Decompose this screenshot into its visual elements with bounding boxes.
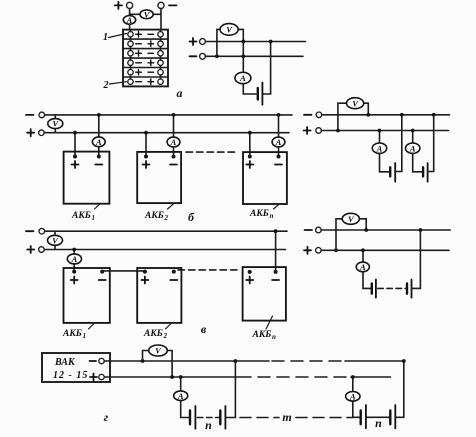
battery box AKB1 (b) xyxy=(64,152,110,204)
junction dot V-right on minus bus (v-right) xyxy=(364,228,368,232)
ammeter An (b) xyxy=(272,137,285,147)
wire voltmeter leads (b) xyxy=(54,115,56,133)
node - label (a-right) xyxy=(190,55,197,57)
junction dot branch1 return (g) xyxy=(234,359,238,363)
terminal - (a) xyxy=(158,2,164,8)
wire plus bus solid right (g) xyxy=(351,376,391,378)
cell 4 electrodes (a) xyxy=(128,60,133,65)
cell 3 polarity + - (a) xyxy=(136,51,154,57)
wire minus bus (b-right) xyxy=(322,114,450,116)
wire voltmeter right lead (b-right) xyxy=(363,103,369,115)
svg-text:2: 2 xyxy=(164,214,169,222)
wire plus bus (v) xyxy=(44,249,285,251)
svg-text:A: A xyxy=(275,137,282,147)
junction dot battery-n on minus bus (b) xyxy=(277,113,281,117)
ammeter A branch2 (g) xyxy=(346,392,360,402)
wire voltmeter right lead / ammeter branch (a-right) xyxy=(238,29,244,72)
cell2 short electrode (b-right) xyxy=(422,167,424,176)
svg-text:АКБ: АКБ xyxy=(71,211,91,221)
branch1 cellB short electrode (g) xyxy=(219,411,221,425)
wire battery1 left lead (b) xyxy=(74,133,76,157)
wire plus bus (b) xyxy=(44,132,289,134)
svg-text:а: а xyxy=(177,86,183,100)
wire cell to top bus (a-right) xyxy=(262,42,270,95)
wire branch2 down lead (b-right) xyxy=(412,131,414,144)
wire voltmeter leads (v) xyxy=(54,231,56,249)
wire ammeter to cell (a-right) xyxy=(243,84,256,94)
cellA short electrode (v-right) xyxy=(371,284,373,294)
ammeter A2 (b) xyxy=(167,137,180,147)
ammeter A (v-right) xyxy=(356,262,369,272)
terminal + (v) xyxy=(39,247,45,253)
svg-text:2: 2 xyxy=(163,332,168,340)
svg-text:A: A xyxy=(177,391,184,401)
ammeter A (a-right) xyxy=(235,72,251,83)
svg-text:АКБ: АКБ xyxy=(252,330,272,340)
junction dot branch on plus bus (v-right) xyxy=(361,248,365,252)
wire voltmeter right lead (g) xyxy=(167,351,173,378)
wire plus bus dashed middle (g) xyxy=(258,376,348,378)
terminal - (v-right) xyxy=(316,227,322,233)
dashed series continuation AKB2 to AKBn (v) xyxy=(178,269,241,271)
wire voltmeter left lead (a-right) xyxy=(217,29,221,56)
wire minus bus solid left (g) xyxy=(104,360,269,362)
branch2 cellB short electrode (g) xyxy=(389,411,391,425)
wire top bus (a-right) xyxy=(206,41,306,43)
cell 1 polarity + - (a) xyxy=(136,32,154,38)
cellB long electrode (v-right) xyxy=(411,280,413,298)
cell 5 polarity + - (a) xyxy=(136,69,154,75)
svg-text:A: A xyxy=(170,137,177,147)
ammeter A1 (b) xyxy=(92,137,105,147)
wire right vertical (a) xyxy=(160,9,162,30)
battery2 terminal posts (b) xyxy=(144,155,148,159)
battery box AKBn (b) xyxy=(243,152,287,204)
rectifier box VAK 12-15 xyxy=(42,353,110,382)
junction dot V-left on plus bus (b-right) xyxy=(336,129,340,133)
wire ammeter2 to cell2 (b-right) xyxy=(413,153,422,171)
svg-text:n: n xyxy=(272,333,276,341)
junction dot branch1 on plus bus (g) xyxy=(179,375,183,379)
rectifier - sign xyxy=(90,360,97,362)
pointer line AKB2 (b) xyxy=(168,204,174,209)
wire minus bus solid right (g) xyxy=(345,360,404,362)
junction dot cell1 return (b-right) xyxy=(400,113,404,117)
svg-text:n: n xyxy=(270,212,274,220)
wire cellB to minus bus branch2 (g) xyxy=(395,361,404,417)
wire plus bus (b-right) xyxy=(321,130,448,132)
junction dot on bottom bus (a-right) xyxy=(241,54,245,58)
node - label (v) xyxy=(26,230,34,232)
battery-n polarity signs (b) xyxy=(246,161,282,168)
cell2 long electrode (b-right) xyxy=(427,163,429,182)
svg-text:АКБ: АКБ xyxy=(249,209,269,219)
voltmeter V (a-right) xyxy=(220,24,238,36)
svg-text:A: A xyxy=(95,137,102,147)
branch1 cellB long electrode (g) xyxy=(224,406,226,429)
svg-text:г: г xyxy=(104,410,109,424)
svg-text:A: A xyxy=(126,15,133,25)
battery box AKB2 (v) xyxy=(137,268,181,323)
junction dot V-right on minus bus (b-right) xyxy=(366,113,370,117)
svg-text:n: n xyxy=(205,418,212,432)
cell 6 electrodes (a) xyxy=(128,79,133,84)
node minus label (a) xyxy=(169,4,177,6)
svg-text:A: A xyxy=(239,73,246,83)
wire cell1 to minus bus (b-right) xyxy=(395,115,402,172)
wire cellB to minus bus branch1 (g) xyxy=(225,361,235,418)
ammeter A (v) xyxy=(67,254,81,264)
junction dot battery-n on plus bus (b) xyxy=(248,131,252,135)
node plus terminal (a) xyxy=(115,2,122,9)
wire ammeter1 to cell1 (b-right) xyxy=(380,153,390,171)
wire ammeter branch lead (v) xyxy=(73,250,75,272)
wire ammeter1 to cellA (g) xyxy=(181,401,189,418)
voltmeter V (v-right) xyxy=(342,213,359,224)
node + label (a-right) xyxy=(190,38,197,45)
junction dot return on minus bus (v-right) xyxy=(419,228,423,232)
cell 1 electrodes (a) xyxy=(128,32,133,37)
wire AKBn to minus bus (v) xyxy=(275,231,277,272)
terminal + (v-right) xyxy=(316,248,322,254)
wire minus bus (v-right) xyxy=(321,229,450,231)
ammeter A (a) xyxy=(123,16,135,25)
terminal - (a-right) xyxy=(200,53,206,59)
pointer line AKB2 (v) xyxy=(166,323,173,330)
wire branch1 down lead (g) xyxy=(180,377,182,391)
junction dot battery1 on minus bus (b) xyxy=(97,113,101,117)
wire ammeter2 to cellA (g) xyxy=(353,401,360,417)
svg-text:A: A xyxy=(359,262,366,272)
wire minus bus (v) xyxy=(45,230,287,232)
wire battery-n left lead (b) xyxy=(249,133,251,157)
junction dot battery2 on minus bus (b) xyxy=(172,113,176,117)
wire battery-n right lead (b) xyxy=(278,115,280,157)
wire branch1 down lead (b-right) xyxy=(379,131,381,144)
wire cellB to minus bus (v-right) xyxy=(412,230,421,288)
wire battery2 right lead (b) xyxy=(173,115,175,157)
wire ammeter to cellA (v-right) xyxy=(363,272,371,289)
junction dot on plus bus (v) xyxy=(72,248,76,252)
battery box (a) xyxy=(123,30,168,87)
svg-text:1: 1 xyxy=(103,32,108,43)
node - label (b) xyxy=(26,114,34,116)
junction dot branch2 on plus bus (b-right) xyxy=(411,129,415,133)
voltmeter V (v) xyxy=(48,235,63,245)
battery2 polarity signs (b) xyxy=(143,161,178,168)
cell separator lines (a) xyxy=(123,39,168,77)
cell 6 polarity - + (a) xyxy=(136,79,154,85)
node + label (v) xyxy=(27,246,34,253)
battery1 polarity signs (v) xyxy=(71,277,106,284)
wire minus bus (b) xyxy=(45,114,292,116)
wire left vertical (a) xyxy=(129,9,131,30)
terminal + (a) xyxy=(127,2,133,8)
dashed series cells continuation (v-right) xyxy=(378,287,406,289)
wire voltmeter left lead (b-right) xyxy=(338,103,348,130)
battery1 terminal posts (b) xyxy=(73,155,77,159)
junction dot branch1 on plus bus (b-right) xyxy=(378,129,382,133)
svg-text:A: A xyxy=(409,143,416,153)
svg-text:1: 1 xyxy=(92,214,96,222)
voltmeter V (b-right) xyxy=(347,98,364,109)
cell 4 polarity - + (a) xyxy=(136,60,154,66)
cell 5 electrodes (a) xyxy=(128,70,133,75)
cellB short electrode (v-right) xyxy=(406,284,408,294)
pointer line AKBn (v) xyxy=(266,316,273,329)
cell 2 electrodes (a) xyxy=(128,41,133,46)
rectifier + terminal xyxy=(99,374,104,379)
cell 3 electrodes (a) xyxy=(128,51,133,56)
right electrode column wire (a) xyxy=(160,30,162,82)
junction dot V-left on plus bus (v-right) xyxy=(334,248,338,252)
svg-text:m: m xyxy=(282,410,291,424)
svg-text:АКБ: АКБ xyxy=(62,329,82,339)
junction dot branch2 on plus bus (g) xyxy=(351,375,355,379)
voltmeter V (b) xyxy=(48,119,63,129)
svg-text:A: A xyxy=(349,391,356,401)
svg-text:n: n xyxy=(375,416,382,430)
pointer line AKB1 (v) xyxy=(89,323,96,330)
battery box AKBn (v) xyxy=(243,267,286,321)
battery-n polarity signs (v) xyxy=(246,277,279,284)
voltmeter V (g) xyxy=(149,345,168,356)
series wire AKB1 to AKB2 (v) xyxy=(102,270,145,272)
junction dot V-left on minus bus (g) xyxy=(141,359,145,363)
svg-text:АКБ: АКБ xyxy=(144,211,164,221)
rectifier - terminal xyxy=(99,358,104,363)
wire voltmeter right lead (v-right) xyxy=(358,219,366,230)
cell short electrode (a-right) xyxy=(257,88,259,100)
junction dot on top bus (a-right) xyxy=(241,40,245,44)
dashed m-line right part (g) xyxy=(296,417,353,419)
dashed m-line left part (g) xyxy=(240,417,279,419)
svg-text:в: в xyxy=(201,322,207,336)
junction dot V-right on plus bus (g) xyxy=(170,375,174,379)
rectifier + sign xyxy=(90,374,97,381)
terminal + (b) xyxy=(39,130,45,136)
node + label (b-right) xyxy=(304,127,311,134)
battery1 polarity signs (b) xyxy=(72,161,103,168)
callout line 1 xyxy=(109,34,127,38)
branch1 cellA short electrode (g) xyxy=(189,411,191,425)
svg-text:12 - 15: 12 - 15 xyxy=(53,370,88,381)
node - label (b-right) xyxy=(304,114,312,116)
wire plus bus (v-right) xyxy=(321,249,449,251)
branch2 cellA short electrode (g) xyxy=(360,411,362,425)
cellA long electrode (v-right) xyxy=(375,280,377,298)
cell 2 polarity - + (a) xyxy=(136,41,154,47)
wire branch2 down lead (g) xyxy=(352,377,354,392)
ammeter A branch1 (g) xyxy=(174,391,188,401)
node + label (v-right) xyxy=(304,247,311,254)
junction dot cell2 return (b-right) xyxy=(432,113,436,117)
svg-text:б: б xyxy=(188,210,195,224)
terminal + (b-right) xyxy=(316,128,322,134)
battery-n terminal posts (v) xyxy=(248,270,252,274)
voltmeter V (a) xyxy=(140,10,153,19)
branch2 cellB long electrode (g) xyxy=(394,405,396,428)
svg-text:1: 1 xyxy=(83,332,87,340)
battery2 terminal posts (v) xyxy=(143,270,147,274)
terminal - (b) xyxy=(39,112,45,118)
svg-text:2: 2 xyxy=(103,80,109,91)
branch2 cellA long electrode (g) xyxy=(365,405,367,428)
wire voltmeter leads (a) xyxy=(130,13,161,15)
terminal + (a-right) xyxy=(200,39,206,45)
junction dot V-left on bottom bus (a-right) xyxy=(215,54,219,58)
callout line 2 xyxy=(110,82,127,84)
wire ammeter branch lead (v-right) xyxy=(362,250,364,262)
svg-text:АКБ: АКБ xyxy=(143,329,163,339)
wire voltmeter left lead (g) xyxy=(143,351,150,362)
svg-text:ВАК: ВАК xyxy=(54,357,76,368)
svg-text:A: A xyxy=(376,143,383,153)
battery2 polarity signs (v) xyxy=(141,277,177,284)
node - label (v-right) xyxy=(305,229,313,231)
junction dot branch2 return (g) xyxy=(402,359,406,363)
junction dot battery2 on plus bus (b) xyxy=(144,131,148,135)
wire voltmeter left lead (v-right) xyxy=(336,219,344,251)
junction dot AKBn on minus bus (v) xyxy=(274,229,278,233)
ammeter A branch2 (b-right) xyxy=(406,143,420,153)
junction dot return on top bus (a-right) xyxy=(269,40,273,44)
wire minus bus dashed middle (g) xyxy=(272,360,343,362)
wire plus bus solid left (g) xyxy=(104,376,251,378)
junction dot battery1 on plus bus (b) xyxy=(73,131,77,135)
battery box AKB2 (b) xyxy=(137,152,181,203)
wire battery1 right lead (b) xyxy=(98,115,100,157)
cell long electrode (a-right) xyxy=(261,83,263,105)
wire cell2 to minus bus (b-right) xyxy=(428,115,434,172)
battery-n terminal posts (b) xyxy=(248,155,252,159)
left electrode column wire (a) xyxy=(130,30,132,82)
node + label (b) xyxy=(27,129,34,136)
wire bottom bus (a-right) xyxy=(206,55,304,57)
ammeter A branch1 (b-right) xyxy=(372,143,386,153)
branch1 cellA long electrode (g) xyxy=(194,406,196,429)
terminal - (v) xyxy=(39,228,45,234)
wire between cells branch2 (g) xyxy=(366,416,389,418)
dashed cells continuation branch1 (g) xyxy=(197,417,219,419)
battery1 terminal posts (v) xyxy=(72,270,76,274)
cell1 long electrode (b-right) xyxy=(394,163,396,182)
pointer line AKB1 (b) xyxy=(95,204,101,209)
terminal - (b-right) xyxy=(316,112,322,118)
wire battery2 left lead (b) xyxy=(145,133,147,157)
svg-text:A: A xyxy=(71,254,78,264)
battery box AKB1 (v) xyxy=(64,268,110,323)
cell1 short electrode (b-right) xyxy=(389,167,391,176)
dashed continuation between AKB2 and AKBn (b) xyxy=(186,151,238,153)
pointer line AKBn (b) xyxy=(274,204,280,209)
